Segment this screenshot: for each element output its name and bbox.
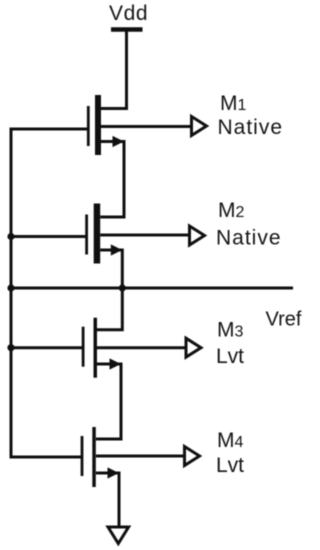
svg-text:M1: M1 xyxy=(220,92,247,115)
svg-text:M4: M4 xyxy=(217,429,244,452)
svg-text:Lvt: Lvt xyxy=(216,345,244,368)
svg-text:M3: M3 xyxy=(217,319,244,342)
svg-text:M2: M2 xyxy=(218,199,245,222)
svg-text:Vref: Vref xyxy=(266,309,302,331)
svg-text:Native: Native xyxy=(218,116,284,139)
svg-text:Vdd: Vdd xyxy=(109,2,148,25)
svg-text:Lvt: Lvt xyxy=(216,454,244,477)
svg-text:Native: Native xyxy=(216,227,282,250)
